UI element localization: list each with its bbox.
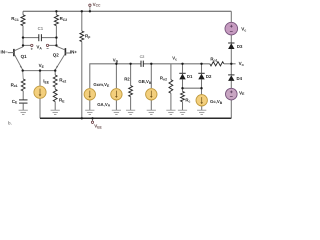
svg-text:D2: D2 [206,74,212,79]
svg-text:b.: b. [8,120,12,125]
svg-text:C1: C1 [38,26,44,31]
svg-text:IN+: IN+ [70,49,78,54]
svg-text:C2: C2 [140,55,145,59]
svg-text:R2: R2 [124,77,130,82]
svg-text:IN−: IN− [1,50,9,55]
svg-text:Q2: Q2 [53,52,60,57]
svg-text:Q1: Q1 [21,54,28,59]
svg-text:D1: D1 [187,74,193,79]
svg-text:D3: D3 [237,44,243,49]
svg-text:D4: D4 [237,76,243,81]
